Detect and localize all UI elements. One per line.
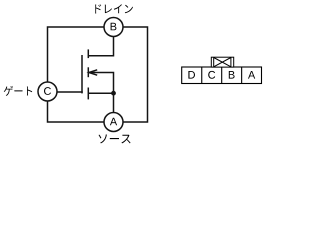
package tab: inner left rail [213, 57, 215, 67]
node: source junction dot [111, 91, 116, 96]
transistor Q1: gate electrode bar [81, 55, 83, 93]
terminal C (gate pin) circle [38, 82, 57, 101]
package tab: cross stroke 1 [214, 58, 231, 67]
package pinout: divider B|A [241, 67, 243, 84]
wire: source node down to terminal A [113, 93, 115, 113]
pin label C [44, 87, 51, 95]
pin label B [111, 23, 117, 31]
package pinout: divider C|B [221, 67, 223, 84]
package tab: outer rectangle [211, 57, 233, 67]
package pin label C [208, 71, 215, 79]
label: ソース (source) [99, 134, 131, 143]
transistor Q1: body arrowhead (n-channel, pointing left) [89, 70, 97, 75]
wire: drain lead from channel top to terminal B [88, 36, 113, 56]
terminal B (drain pin) circle [104, 18, 123, 37]
transistor Q1: channel segment (drain side) [87, 49, 89, 58]
package pin label A [248, 71, 255, 79]
package tab: inner right rail [230, 57, 232, 67]
package pin label D [188, 71, 195, 79]
label: ドレイン (drain) [95, 4, 133, 13]
wire: gate lead from terminal C to gate electrode [50, 91, 83, 93]
terminal A (source pin) circle [104, 113, 123, 132]
package tab: cross stroke 2 [214, 58, 231, 67]
wire: source line from channel to junction [89, 92, 114, 94]
pin label A [110, 118, 117, 126]
package pin label B [229, 71, 235, 79]
package pinout: divider D|C [201, 67, 203, 84]
transistor Q1: channel segment (body) [87, 67, 89, 77]
wire: body/substrate connection to source node [89, 73, 114, 94]
transistor Q1: channel segment (source side) [87, 88, 89, 100]
package pinout: body outline [182, 67, 262, 84]
wire: outer loop rectangle connecting terminals B, C, A [48, 27, 148, 122]
label: ゲート (gate) [4, 86, 33, 96]
